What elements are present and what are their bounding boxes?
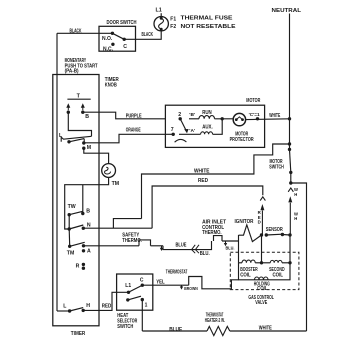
svg-text:2: 2 bbox=[178, 112, 181, 118]
svg-text:NOT RESETABLE: NOT RESETABLE bbox=[181, 24, 236, 30]
label: L1 bbox=[155, 8, 161, 14]
svg-text:H: H bbox=[294, 192, 297, 197]
motor terminal 'C'=1 bbox=[249, 112, 260, 120]
motor box bbox=[165, 105, 264, 147]
aux winding coil bbox=[179, 119, 222, 135]
gas control valve dashed box bbox=[230, 252, 299, 289]
svg-text:NEUTRAL: NEUTRAL bbox=[272, 8, 302, 14]
wire: TW pivot down to N pivot bbox=[68, 215, 70, 229]
junction: white staircase joins neutral bbox=[288, 142, 291, 145]
svg-text:IGNITOR: IGNITOR bbox=[235, 219, 254, 225]
svg-text:PROTECTOR: PROTECTOR bbox=[230, 137, 254, 143]
label: WHITE (motor) bbox=[269, 113, 280, 119]
svg-text:'B': 'B' bbox=[189, 112, 195, 118]
wire: N pivot down to TM pivot bbox=[68, 229, 71, 246]
label: THERMOSTAT (cycling) bbox=[166, 270, 188, 276]
label: BLU. (right) bbox=[226, 245, 235, 251]
connector: blue double chevron bbox=[192, 245, 199, 253]
wire: BLUE run bbox=[163, 241, 212, 250]
connector: red arrow bbox=[260, 204, 264, 235]
svg-text:MOTOR: MOTOR bbox=[246, 98, 260, 104]
wire: sensor to connector dot bbox=[282, 234, 290, 237]
timer contact R (two dots, unused) bbox=[76, 263, 86, 270]
label: MOTOR SWITCH bbox=[269, 159, 284, 170]
timer box bbox=[53, 75, 99, 326]
wire: N contact to red-bus left leg bbox=[83, 227, 152, 229]
label: IGNITOR bbox=[235, 219, 254, 225]
push-to-start right contact with arrow (terminal B) bbox=[81, 103, 85, 114]
wire: safety thermo to connector bbox=[151, 245, 164, 247]
wire: M to timer motor TM bbox=[84, 148, 109, 163]
svg-text:A: A bbox=[87, 249, 91, 255]
svg-text:BLACK: BLACK bbox=[70, 29, 82, 35]
svg-text:BROWN: BROWN bbox=[184, 286, 198, 292]
label: TIMER KNOB bbox=[105, 77, 119, 89]
timer contact H (heat) bbox=[82, 303, 91, 312]
svg-text:WHITE: WHITE bbox=[259, 325, 272, 331]
svg-text:B: B bbox=[86, 209, 90, 215]
timer contact TW pivot bbox=[68, 213, 71, 216]
timer blade TW-B bbox=[69, 211, 83, 214]
heat selector blade lower bbox=[128, 296, 141, 300]
sensor blade bbox=[266, 233, 282, 236]
svg-text:SWITCH: SWITCH bbox=[269, 164, 284, 170]
label: BOOSTER COIL bbox=[240, 267, 258, 278]
wire: igniter left leg bbox=[238, 235, 240, 263]
label: YEL bbox=[156, 279, 165, 285]
label: SECOND COIL bbox=[269, 267, 285, 278]
cycling thermostat bump and BROWN wire to holding coil bbox=[189, 277, 239, 289]
wire: push left contact down to cam L bbox=[68, 112, 91, 136]
wire: timer A to safety thermostat bbox=[84, 245, 140, 247]
push-to-start actuator bar bbox=[67, 94, 90, 100]
heat selector terminal 1 bbox=[141, 298, 148, 309]
svg-text:F2: F2 bbox=[170, 24, 176, 30]
label: MOMENTARY PUSH TO START (PA-B) bbox=[65, 58, 99, 75]
svg-text:BLU.: BLU. bbox=[226, 245, 235, 251]
heat selector lower-left contact bbox=[126, 298, 129, 301]
timer contact N pivot bbox=[68, 227, 71, 230]
wire: door switch C to thermal fuse (BLACK) bbox=[124, 31, 161, 40]
wire: neutral vertical bbox=[289, 14, 291, 150]
label: BROWN bbox=[184, 286, 198, 292]
svg-text:COIL: COIL bbox=[273, 273, 284, 279]
label: 'B' bbox=[189, 112, 195, 118]
svg-text:BLU.: BLU. bbox=[200, 251, 211, 257]
svg-text:RED: RED bbox=[198, 178, 208, 184]
svg-text:PURPLE: PURPLE bbox=[126, 114, 142, 120]
wire: right side return bbox=[291, 183, 307, 331]
door switch DS1 box bbox=[99, 26, 136, 51]
label: RED (wire) bbox=[102, 303, 112, 309]
timer cam L bbox=[59, 133, 92, 142]
timer blade TM-A bbox=[70, 242, 85, 246]
door switch common C bbox=[123, 38, 128, 50]
svg-text:THERMO.: THERMO. bbox=[122, 238, 142, 244]
svg-text:C: C bbox=[123, 44, 127, 50]
svg-text:DOOR SWITCH: DOOR SWITCH bbox=[107, 20, 137, 26]
connector: red chevron bbox=[260, 197, 265, 201]
svg-text:COIL: COIL bbox=[240, 273, 251, 279]
motor start switch blade 2-A with arrow bbox=[180, 119, 188, 133]
wire: white bus left leg to timer N bbox=[113, 219, 141, 229]
label: TM (timer motor) bbox=[112, 181, 120, 187]
wire: motor switch to lower junction bbox=[290, 172, 292, 183]
timer contact L pivot bbox=[67, 140, 70, 143]
wire: motor to neutral (WHITE) bbox=[246, 118, 290, 121]
svg-text:H: H bbox=[86, 303, 90, 309]
timer contact B (cool-down) bbox=[81, 209, 90, 216]
junction: sensor-right bbox=[288, 233, 291, 236]
motor switch bottom contact bbox=[289, 171, 292, 174]
wire: ORANGE timer M to motor terminal 7 bbox=[84, 134, 173, 143]
label: TM (lower cam) bbox=[67, 251, 75, 257]
junction: igniter-red-sensor bbox=[260, 233, 263, 236]
air inlet control thermostat bbox=[214, 236, 223, 241]
svg-text:RED: RED bbox=[102, 303, 112, 309]
heat selector terminal L1 bbox=[125, 283, 131, 294]
label: BLACK (left) bbox=[70, 29, 82, 35]
wire: RED bus bbox=[152, 186, 263, 228]
heat selector terminal C bbox=[140, 277, 144, 287]
wire: hot feed from timer to door switch (BLACK) bbox=[57, 33, 111, 311]
wire: bottom white run bbox=[230, 330, 307, 332]
connector: brown tick bbox=[180, 285, 183, 289]
door switch contact N.O. bbox=[102, 32, 114, 42]
motor centrifugal switch arc bbox=[175, 139, 187, 142]
label: BLUE bbox=[176, 242, 187, 248]
svg-text:BLACK: BLACK bbox=[142, 32, 154, 38]
door switch blade bbox=[112, 33, 124, 39]
connector: blue tick bbox=[160, 246, 163, 251]
svg-text:D: D bbox=[258, 220, 261, 225]
push-to-start left contact with arrow bbox=[66, 103, 70, 114]
label: RUN bbox=[202, 110, 212, 116]
label: NOT RESETABLE bbox=[181, 24, 236, 30]
svg-text:B: B bbox=[85, 114, 89, 120]
label: WHITE (bus) bbox=[194, 168, 210, 174]
timer motor TM circle bbox=[102, 164, 116, 178]
svg-text:SENSOR: SENSOR bbox=[266, 227, 283, 233]
connector: neutral chevron bbox=[288, 188, 293, 192]
svg-text:L1: L1 bbox=[155, 8, 161, 14]
label: TIMER (bottom) bbox=[71, 331, 86, 337]
thermostat heater resistor bbox=[207, 326, 230, 335]
booster coil bbox=[239, 260, 262, 263]
wire: air inlet thermo to igniter leg bbox=[222, 240, 239, 242]
label: THERMOSTAT HEATER-2 W. bbox=[205, 312, 225, 323]
label: ORANGE bbox=[126, 128, 141, 134]
label: AIR INLET CONTROL THERMO. bbox=[202, 220, 227, 237]
label: F2 bbox=[170, 24, 176, 30]
svg-text:1: 1 bbox=[145, 303, 148, 309]
timer contact N bbox=[82, 223, 91, 230]
svg-text:7: 7 bbox=[171, 127, 174, 133]
svg-text:N.C.: N.C. bbox=[103, 47, 114, 53]
sensor right contact bbox=[281, 233, 284, 236]
label: F1 bbox=[170, 16, 176, 22]
connector: neutral arrow bbox=[288, 196, 292, 235]
junction: neutral at motor white bbox=[288, 117, 291, 120]
label: BLU. (left) bbox=[200, 251, 211, 257]
label: SENSOR bbox=[266, 227, 283, 233]
label: BLACK (right) bbox=[142, 32, 154, 38]
wire: branch down to contact B(TW) bbox=[82, 185, 84, 214]
junction: neutral lower bbox=[289, 181, 292, 184]
svg-text:'C'=1: 'C'=1 bbox=[249, 112, 260, 118]
svg-text:ORANGE: ORANGE bbox=[126, 128, 141, 134]
svg-text:YEL: YEL bbox=[156, 279, 165, 285]
svg-text:'A': 'A' bbox=[189, 128, 195, 134]
timer blade N bbox=[69, 225, 83, 229]
label: PURPLE bbox=[126, 114, 142, 120]
svg-text:F1: F1 bbox=[170, 16, 176, 22]
svg-text:BLUE: BLUE bbox=[169, 327, 182, 333]
svg-text:H: H bbox=[294, 216, 297, 221]
svg-text:N.O.: N.O. bbox=[102, 36, 113, 42]
holding coil bbox=[255, 277, 269, 280]
svg-text:(PA-B): (PA-B) bbox=[65, 69, 79, 75]
label: TW bbox=[68, 204, 76, 210]
label: W H (upper) bbox=[294, 187, 298, 197]
wire: TM bottom to timer feed bus bbox=[65, 177, 109, 229]
junction: coil center bbox=[260, 261, 263, 264]
label: MOTOR (box) bbox=[246, 98, 260, 104]
label: THERMAL FUSE bbox=[181, 15, 233, 21]
svg-text:THERMAL FUSE: THERMAL FUSE bbox=[181, 15, 233, 21]
label: GAS CONTROL VALVE bbox=[248, 295, 274, 306]
wire: PURPLE timer B to motor terminal 2 bbox=[83, 112, 166, 119]
timer contact A (two dots) bbox=[82, 244, 91, 255]
svg-text:BLUE: BLUE bbox=[176, 242, 187, 248]
label: R E D (stacked) bbox=[258, 210, 262, 224]
svg-text:C: C bbox=[140, 277, 144, 283]
label: HEAT SELECTOR SWITCH bbox=[117, 313, 137, 330]
connector: blu tick (right) bbox=[224, 241, 227, 246]
svg-text:COIL: COIL bbox=[257, 286, 268, 292]
label: MOTOR PROTECTOR bbox=[230, 131, 254, 143]
sensor left contact bbox=[265, 233, 268, 236]
timer blade L-M bbox=[69, 139, 84, 142]
thermal fuse top stub to L1 bbox=[160, 13, 162, 16]
wire: igniter junction down to coils bbox=[261, 235, 263, 263]
svg-text:SWITCH: SWITCH bbox=[117, 324, 133, 330]
svg-text:VALVE: VALVE bbox=[255, 300, 267, 306]
second coil bbox=[262, 260, 291, 262]
motor terminal 7 bbox=[171, 127, 175, 136]
motor switch blade bbox=[290, 149, 291, 172]
heat selector blade L1-C bbox=[129, 285, 143, 292]
svg-text:THERMO.: THERMO. bbox=[202, 230, 222, 236]
timer contact M (two dots) bbox=[82, 141, 91, 151]
igniter resistor bbox=[239, 225, 262, 242]
coil box outline bbox=[239, 263, 291, 280]
label: DOOR SWITCH bbox=[107, 20, 137, 26]
svg-text:WHITE: WHITE bbox=[269, 113, 280, 119]
label: SAFETY THERMO. bbox=[122, 232, 142, 244]
label: HOLDING COIL bbox=[254, 282, 270, 293]
wire: sensor right down to coil box bbox=[289, 235, 291, 263]
svg-text:KNOB: KNOB bbox=[105, 83, 117, 89]
timer contact L (line) pivot bbox=[57, 304, 71, 313]
motor protector circle bbox=[233, 113, 245, 125]
safety thermostat bbox=[139, 240, 151, 246]
label: BLUE (bottom) bbox=[169, 327, 182, 333]
svg-text:TIMER: TIMER bbox=[71, 331, 86, 337]
svg-text:R: R bbox=[76, 263, 80, 269]
junction: run/aux bbox=[221, 117, 224, 120]
svg-text:TW: TW bbox=[68, 204, 76, 210]
motor terminal 2 bbox=[178, 112, 182, 120]
junction: coil right bbox=[288, 261, 291, 264]
label: RED (bus) bbox=[198, 178, 208, 184]
svg-text:RUN: RUN bbox=[202, 110, 212, 116]
timer contact TM pivot bbox=[68, 245, 71, 248]
label: NEUTRAL bbox=[272, 8, 302, 14]
wire: YEL from heat selector C bbox=[142, 284, 188, 286]
svg-text:M: M bbox=[87, 145, 91, 151]
door switch contact N.C. bbox=[103, 43, 115, 53]
wire: timer H to heat selector (RED) bbox=[83, 292, 129, 310]
svg-text:WHITE: WHITE bbox=[194, 168, 210, 174]
motor switch top contact bbox=[288, 148, 291, 151]
timer blade L-H bbox=[70, 308, 84, 311]
svg-text:THERMOSTAT: THERMOSTAT bbox=[166, 270, 188, 276]
wire: heat selector 1 down bbox=[141, 300, 143, 331]
label: W H (lower) bbox=[294, 211, 298, 221]
svg-text:TM: TM bbox=[67, 251, 75, 257]
svg-text:L1: L1 bbox=[125, 283, 131, 289]
svg-text:AUX.: AUX. bbox=[202, 125, 213, 131]
svg-text:TM: TM bbox=[112, 181, 120, 187]
run winding coil bbox=[189, 116, 233, 119]
label: 'A' bbox=[189, 128, 195, 134]
svg-text:HEATER-2 W.: HEATER-2 W. bbox=[205, 318, 225, 324]
wire: bottom blue run bbox=[142, 330, 207, 332]
label: WHITE (bottom) bbox=[259, 325, 272, 331]
wire: WHITE bus bbox=[142, 144, 290, 219]
thermal fuse F1/F2 circle bbox=[154, 17, 168, 31]
label: AUX. bbox=[202, 125, 213, 131]
label: B (push contact) bbox=[85, 114, 89, 120]
heat selector switch box bbox=[117, 274, 153, 310]
